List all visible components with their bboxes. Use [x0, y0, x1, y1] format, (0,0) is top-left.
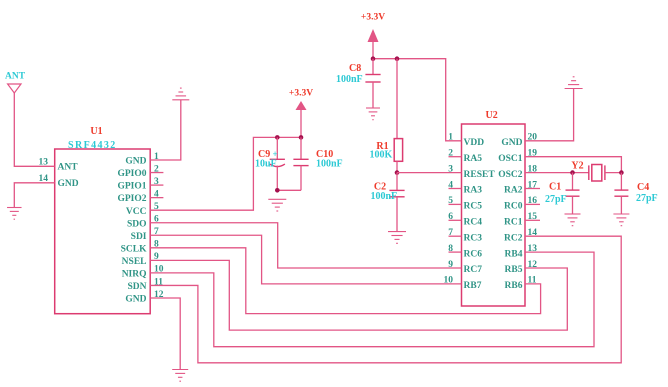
svg-text:C1: C1: [549, 182, 561, 193]
svg-text:GPIO2: GPIO2: [117, 194, 146, 204]
U1 pin 13 name ANT: [58, 162, 79, 172]
U2 pin 14 number: [528, 228, 538, 238]
U2 pin 9 name RC7: [464, 265, 483, 275]
ground above U2 pin20: [565, 77, 583, 89]
junction RESET node: [395, 170, 400, 175]
U2 pin 17 number: [528, 180, 538, 190]
U2 pin 2 stub: [449, 156, 462, 158]
U1 pin 1 number: [154, 152, 159, 162]
C9 value: [255, 159, 277, 170]
C2 designator: [374, 181, 386, 192]
U2 pin 8 number: [448, 244, 453, 254]
svg-text:RC0: RC0: [504, 202, 523, 212]
U1 pin 10 number: [154, 265, 164, 275]
U1 pin 13 number: [39, 158, 49, 168]
U1 pin 10 name NIRQ: [122, 270, 147, 280]
U1 pin 14 name GND: [58, 179, 79, 189]
svg-text:SDO: SDO: [127, 219, 147, 229]
C1 value: [545, 194, 567, 205]
svg-text:GPIO0: GPIO0: [117, 169, 146, 179]
crystal Y2: [589, 165, 605, 182]
U1 pin 5 number: [154, 202, 159, 212]
svg-text:GND: GND: [125, 157, 146, 167]
wire C8 top: [372, 59, 374, 75]
svg-text:GND: GND: [501, 138, 522, 148]
capacitor C4: [614, 190, 628, 196]
U1 pin 5 name VCC: [126, 207, 147, 217]
U2 pin 5 number: [448, 196, 453, 206]
svg-text:SDI: SDI: [131, 232, 147, 242]
wire SDO U1 pin6 to U2 RC7: [150, 223, 461, 268]
C9 designator: [258, 149, 270, 160]
U1 pin 9 name NSEL: [122, 257, 147, 267]
R1 value: [370, 150, 393, 161]
svg-text:RC2: RC2: [504, 233, 523, 243]
U1 pin 4 number: [154, 189, 159, 199]
U1 pin 3 number: [154, 177, 159, 187]
U1 pin 1 name GND: [125, 157, 146, 167]
wire crystal right to junction: [605, 172, 622, 174]
U2 pin 3 name RESET: [464, 170, 496, 180]
U1 pin 3 name GPIO1: [117, 182, 146, 192]
wire SCLK U1 pin8 to U2 RB6: [150, 248, 540, 314]
U2 pin 13 name RB4: [505, 249, 523, 259]
U1 value SRF4432: [68, 140, 117, 151]
ground below C8: [366, 108, 380, 120]
wire NIRQ U1 pin10 to U2 RB4: [150, 252, 594, 347]
wire R1 top: [396, 59, 398, 139]
U2 pin 2 name RA5: [464, 154, 483, 164]
U2 pin 10 number: [444, 276, 454, 286]
U2 pin 20 name GND: [501, 138, 522, 148]
U2 pin 11 name RB6: [505, 281, 523, 291]
capacitor C9: [270, 159, 285, 166]
U2 pin 6 number: [448, 212, 453, 222]
svg-text:NIRQ: NIRQ: [122, 270, 147, 280]
R1 designator: [376, 141, 388, 152]
wire R1 bottom: [396, 161, 398, 172]
C4 value: [636, 193, 658, 204]
U2 pin 18 name OSC2: [498, 170, 523, 180]
capacitor C2: [389, 190, 404, 196]
wire C2 top: [396, 173, 398, 191]
wire OSC1 to crystal right: [525, 157, 621, 173]
svg-text:C8: C8: [349, 63, 361, 74]
U2 pin 4 name RA3: [464, 186, 483, 196]
wire top rail to U2 VDD: [373, 59, 462, 141]
ANT label: [5, 72, 26, 82]
U1 pin 6 number: [154, 215, 159, 225]
U2 pin 12 name RB5: [505, 265, 523, 275]
wire C2 bottom: [396, 197, 398, 232]
U2 pin 16 number: [528, 196, 538, 206]
svg-text:SCLK: SCLK: [121, 244, 147, 254]
U2 pin 13 number: [528, 244, 538, 254]
U1 pin 8 number: [154, 240, 159, 250]
U2 pin 11 number: [528, 276, 537, 286]
svg-text:+3.3V: +3.3V: [289, 88, 313, 98]
wire U1 pin12 to ground: [150, 298, 180, 369]
ground below C4: [613, 214, 629, 226]
U2 pin 5 name RC5: [464, 202, 483, 212]
capacitor C1: [566, 190, 580, 196]
U2 pin 15 name RC1: [504, 218, 523, 228]
IC U1 body: [55, 149, 151, 314]
Y2 designator: [571, 160, 583, 171]
svg-text:RC3: RC3: [464, 233, 483, 243]
U1 pin 9 number: [154, 252, 159, 262]
U2 pin 19 number: [528, 149, 538, 159]
U2 pin 8 name RC6: [464, 249, 483, 259]
wire C4 bottom: [620, 196, 622, 214]
ground below U1 pin12: [172, 370, 188, 382]
wire C10 top: [300, 137, 302, 159]
ground below C9: [268, 199, 286, 211]
svg-text:VDD: VDD: [464, 138, 485, 148]
wire C1 top: [572, 173, 574, 191]
wire U1 pin1 to top ground: [150, 100, 181, 160]
antenna symbol: [8, 84, 21, 93]
svg-text:RA2: RA2: [504, 186, 523, 196]
svg-text:RA5: RA5: [464, 154, 483, 164]
U2 pin 16 name RC0: [504, 202, 523, 212]
C10 value: [316, 159, 343, 170]
U1 pin 11 name SDN: [127, 282, 146, 292]
U2 pin 6 stub: [449, 219, 462, 221]
U2 pin 10 name RB7: [464, 281, 482, 291]
svg-text:RC7: RC7: [464, 265, 483, 275]
U2 pin 1 name VDD: [464, 138, 485, 148]
svg-text:ANT: ANT: [5, 72, 26, 82]
svg-text:27pF: 27pF: [636, 193, 658, 204]
U2 pin 6 name RC4: [464, 218, 483, 228]
wire +3.3V to rail: [300, 110, 302, 137]
U1 pin 2 stub: [150, 172, 163, 174]
U2 pin 19 name OSC1: [498, 154, 523, 164]
svg-text:+3.3V: +3.3V: [361, 13, 385, 23]
svg-text:OSC1: OSC1: [498, 154, 523, 164]
svg-text:NSEL: NSEL: [122, 257, 147, 267]
wire U1 pin14 to ground: [14, 183, 54, 208]
svg-text:VCC: VCC: [126, 207, 147, 217]
wire SDN U1 pin11 to U2 RC2: [150, 236, 621, 363]
U1 pin 6 name SDO: [127, 219, 147, 229]
C2 value: [371, 191, 398, 202]
svg-text:RA3: RA3: [464, 186, 483, 196]
U1 pin 3 stub: [150, 184, 163, 186]
U2 pin 7 number: [448, 228, 453, 238]
svg-text:RC1: RC1: [504, 218, 523, 228]
svg-text:Y2: Y2: [571, 160, 583, 171]
wire C10 bottom: [300, 166, 302, 191]
junction C8 top: [371, 56, 376, 61]
svg-text:GND: GND: [58, 179, 79, 189]
resistor R1: [394, 139, 402, 162]
svg-text:SDN: SDN: [127, 282, 146, 292]
svg-text:RB4: RB4: [505, 249, 523, 259]
U2 pin 4 stub: [449, 188, 462, 190]
U2 pin 3 number: [448, 164, 453, 174]
wire C9 bottom: [276, 166, 278, 191]
junction C4 node: [619, 170, 624, 175]
ground above U1 pin1: [172, 88, 189, 100]
junction R1 top: [395, 56, 400, 61]
svg-text:GPIO1: GPIO1: [117, 182, 146, 192]
C9 plus sign: [273, 149, 278, 159]
junction C10 top: [299, 135, 304, 140]
svg-text:GND: GND: [125, 295, 146, 305]
wire SDI U1 pin7 to U2 RB7: [150, 235, 461, 284]
U2 pin 2 number: [448, 149, 453, 159]
svg-text:OSC2: OSC2: [498, 170, 523, 180]
wire OSC2 to crystal left: [525, 172, 589, 174]
U1 pin 2 number: [154, 164, 159, 174]
wire VCC rail: [150, 137, 301, 210]
wire NSEL U1 pin9 to U2 RB5: [150, 260, 567, 330]
svg-text:ANT: ANT: [58, 162, 79, 172]
wire C8 bottom: [372, 82, 374, 108]
svg-text:+: +: [273, 149, 278, 159]
U2 pin 5 stub: [449, 203, 462, 205]
U2 pin 9 number: [448, 260, 453, 270]
svg-text:RB5: RB5: [505, 265, 523, 275]
capacitor C10: [293, 159, 308, 165]
U2 pin 14 name RC2: [504, 233, 523, 243]
C1 designator: [549, 182, 561, 193]
U2 pin 12 number: [528, 260, 538, 270]
U2 pin 15 number: [528, 212, 538, 222]
junction C9 bottom: [275, 188, 280, 193]
svg-text:10uF: 10uF: [255, 159, 277, 170]
wire RESET to U2 pin3: [397, 172, 462, 174]
U1 pin 7 name SDI: [131, 232, 147, 242]
C4 designator: [637, 182, 649, 193]
U2 pin 1 number: [448, 133, 453, 143]
svg-text:RESET: RESET: [464, 170, 496, 180]
U2 pin 7 stub: [449, 235, 462, 237]
C8 value: [336, 74, 363, 85]
power +3.3V at C8: [361, 13, 385, 43]
U2 pin 7 name RC3: [464, 233, 483, 243]
svg-text:100nF: 100nF: [316, 159, 343, 170]
svg-text:RC5: RC5: [464, 202, 483, 212]
U2 pin 16 stub: [525, 203, 540, 205]
U1 pin 11 number: [154, 277, 163, 287]
svg-text:100K: 100K: [370, 150, 393, 161]
C8 designator: [349, 63, 361, 74]
wire C4 top: [620, 173, 622, 191]
U1 pin 7 number: [154, 227, 159, 237]
power +3.3V at C9: [289, 88, 313, 110]
junction C1 node: [570, 170, 575, 175]
wire ANT to U1 pin13: [14, 93, 54, 166]
U1 pin 12 number: [154, 290, 164, 300]
U1 pin 14 number: [39, 174, 49, 184]
U1 pin 2 name GPIO0: [117, 169, 146, 179]
U2 pin 18 number: [528, 164, 538, 174]
svg-text:SRF4432: SRF4432: [68, 140, 117, 151]
svg-text:RC6: RC6: [464, 249, 483, 259]
U1 pin 8 name SCLK: [121, 244, 147, 254]
svg-text:U1: U1: [90, 126, 102, 137]
wire C9-C10 bottom: [277, 189, 301, 191]
svg-text:100nF: 100nF: [336, 74, 363, 85]
U2 pin 17 stub: [525, 188, 540, 190]
wire C1 bottom: [572, 196, 574, 214]
svg-text:100nF: 100nF: [371, 191, 398, 202]
U1 designator: [90, 126, 102, 137]
wire +3.3V stem: [372, 42, 374, 59]
capacitor C8: [365, 75, 380, 83]
IC U2 body: [462, 124, 526, 306]
junction C9 top: [275, 135, 280, 140]
ground below C2: [388, 232, 406, 244]
svg-text:27pF: 27pF: [545, 194, 567, 205]
svg-text:RB7: RB7: [464, 281, 482, 291]
ground at U1 pin14: [7, 208, 21, 220]
ground below C1: [565, 214, 581, 226]
U2 pin 4 number: [448, 180, 453, 190]
U2 pin 15 stub: [525, 219, 540, 221]
svg-text:U2: U2: [486, 110, 498, 121]
svg-text:RB6: RB6: [505, 281, 523, 291]
U1 pin 12 name GND: [125, 295, 146, 305]
svg-text:RC4: RC4: [464, 218, 483, 228]
wire U2 pin20 to ground: [525, 89, 574, 141]
U2 pin 20 number: [528, 133, 538, 143]
U1 pin 4 stub: [150, 197, 163, 199]
U1 pin 4 name GPIO2: [117, 194, 146, 204]
U2 pin 8 stub: [449, 251, 462, 253]
wire C9 top: [276, 137, 278, 159]
C10 designator: [316, 149, 333, 160]
U2 designator: [486, 110, 498, 121]
svg-text:C4: C4: [637, 182, 649, 193]
U2 pin 17 name RA2: [504, 186, 523, 196]
